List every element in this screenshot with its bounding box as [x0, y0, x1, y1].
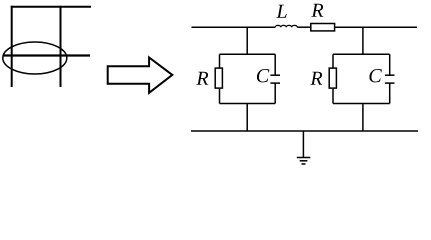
wire: section 2 drop to bus — [362, 104, 364, 132]
label R1 — [196, 72, 208, 85]
wire: drop from top rail to section 2 — [362, 27, 364, 54]
label C2 — [369, 69, 381, 82]
resistor R series box — [311, 24, 335, 31]
wire: top rail left segment — [192, 26, 276, 28]
wire: top rail right segment — [335, 26, 417, 28]
label L — [276, 5, 286, 18]
wire: left sketch vertical line 2 — [60, 6, 62, 87]
wire: bottom bus — [191, 130, 418, 132]
label C1 — [257, 69, 269, 82]
wire: R1 top lead — [219, 54, 221, 68]
wire: R2 bottom lead — [332, 89, 334, 104]
wire: between L and R — [297, 26, 310, 28]
wire: R2 top lead — [332, 54, 334, 68]
wire: C2 bottom lead — [389, 83, 391, 103]
wire: C2 top lead — [389, 54, 391, 75]
wire: section 1 bottom rail — [220, 103, 276, 105]
wire: drop from top rail to section 1 — [246, 27, 248, 54]
wire: section 2 top rail — [333, 53, 390, 55]
capacitor C1 plates — [270, 75, 280, 83]
capacitor C2 plates — [385, 75, 395, 83]
resistor R1 box — [215, 68, 222, 88]
wire: left sketch middle horizontal line — [3, 54, 90, 56]
label R (series) — [311, 4, 323, 17]
wire: section 2 bottom rail — [333, 103, 390, 105]
wire: section 1 top rail — [220, 53, 276, 55]
resistor R2 box — [329, 68, 336, 88]
node highlight ellipse — [3, 42, 67, 74]
wire: left sketch top horizontal line — [11, 6, 91, 8]
ground — [297, 131, 311, 164]
wire: C1 top lead — [274, 54, 276, 75]
wire: R1 bottom lead — [219, 89, 221, 104]
label R2 — [310, 72, 322, 85]
wire: C1 bottom lead — [274, 83, 276, 103]
arrow (transformation) — [108, 58, 173, 93]
wire: section 1 drop to bus — [246, 104, 248, 132]
inductor L1 coil — [275, 25, 297, 27]
wire: left sketch vertical line 1 — [11, 6, 13, 87]
